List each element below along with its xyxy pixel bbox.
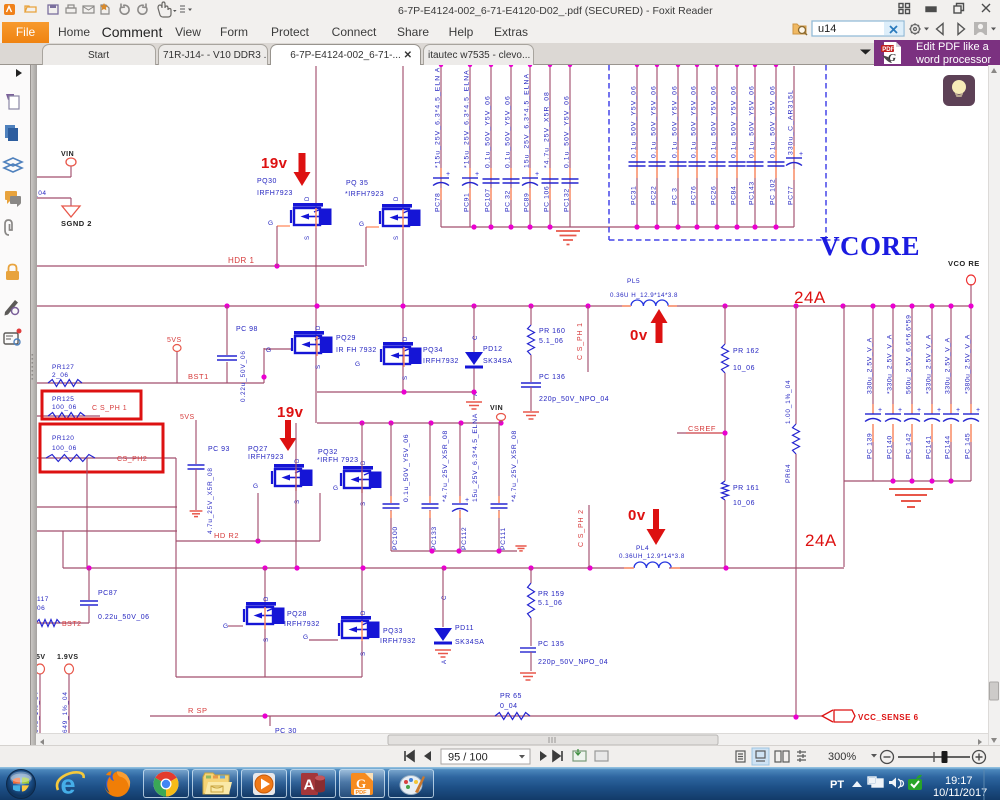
svg-text:300%: 300% (828, 751, 856, 763)
svg-text:G: G (356, 776, 366, 791)
svg-text:u14: u14 (818, 23, 836, 35)
svg-text:PDF: PDF (356, 790, 368, 796)
svg-text:PT: PT (830, 779, 844, 791)
svg-text:10/11/2017: 10/11/2017 (933, 787, 987, 799)
svg-text:95 / 100: 95 / 100 (448, 752, 488, 764)
svg-text:19:17: 19:17 (945, 775, 973, 787)
svg-text:6-7P-E4124-002_6-71-E4120-D02_: 6-7P-E4124-002_6-71-E4120-D02_.pdf (SECU… (398, 5, 713, 17)
svg-text:G: G (888, 52, 896, 64)
svg-text:A: A (304, 777, 315, 794)
